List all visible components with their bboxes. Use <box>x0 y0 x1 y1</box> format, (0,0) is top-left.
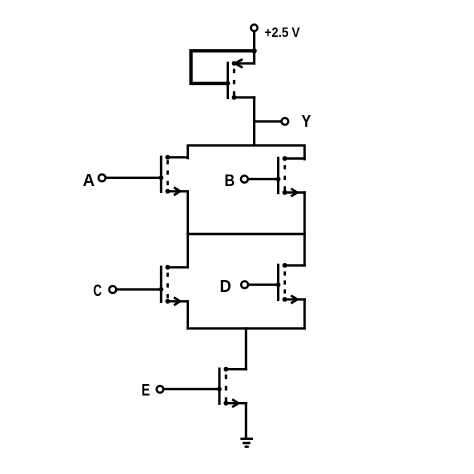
wire input A to gate <box>106 177 161 179</box>
wire E source down to ground <box>245 403 247 439</box>
input E terminal <box>142 381 164 399</box>
input A terminal <box>83 170 106 190</box>
svg-text:+2.5 V: +2.5 V <box>265 24 301 40</box>
wire input B to gate <box>248 178 278 180</box>
wire D source down to bottom rail <box>303 299 305 328</box>
transistor Q_A <box>159 155 188 195</box>
wire A source down to C drain <box>187 191 189 267</box>
wire C source down to bottom rail <box>187 301 189 328</box>
wire B source down to D drain <box>303 193 305 266</box>
wire load source down to output node <box>253 97 255 145</box>
svg-text:D: D <box>220 276 232 296</box>
wire bottom source rail <box>188 327 305 329</box>
wire input C to gate <box>117 288 162 290</box>
ground <box>240 439 253 447</box>
transistor M1 load (diode-connected NMOS) <box>226 59 255 100</box>
wire input E to gate <box>164 388 220 390</box>
wire VDD vertical <box>253 32 255 63</box>
node Y output <box>254 111 311 131</box>
transistor Q_E <box>217 367 246 407</box>
power terminal +2.5 V <box>251 24 301 40</box>
svg-text:E: E <box>142 381 151 399</box>
wire rail down to E drain <box>245 328 247 369</box>
transistor Q_C <box>159 265 188 305</box>
transistor Q_D <box>276 263 305 303</box>
transistor Q_B <box>276 156 305 196</box>
wire cross link between branches <box>188 233 305 235</box>
junction gate loop to VDD <box>252 48 257 53</box>
wire input D to gate <box>248 284 278 286</box>
input D terminal <box>220 276 248 296</box>
svg-text:A: A <box>83 170 95 190</box>
input C terminal <box>93 281 116 300</box>
svg-text:B: B <box>225 172 235 190</box>
svg-text:Y: Y <box>302 111 312 131</box>
svg-text:C: C <box>93 281 102 300</box>
wire gate-to-drain loop of load transistor <box>191 51 253 84</box>
input B terminal <box>225 172 248 190</box>
wire drain rail connecting A and B drains to Y <box>188 145 305 159</box>
